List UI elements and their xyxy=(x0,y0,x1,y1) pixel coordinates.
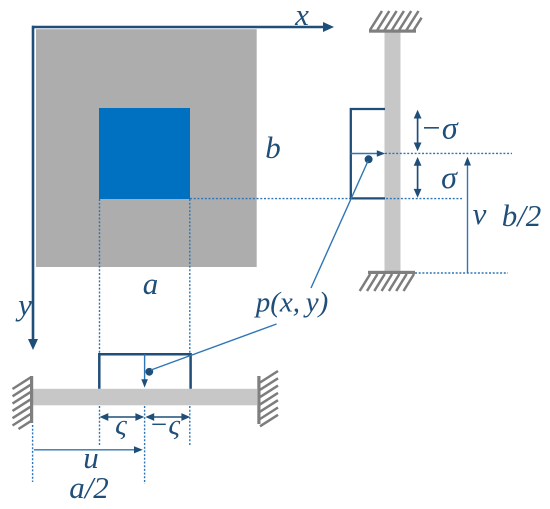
dotted horizontal at patch bottom xyxy=(190,198,462,200)
dotted vertical below left support xyxy=(32,425,34,482)
zeta double arrow xyxy=(100,413,145,421)
bottom beam right support base xyxy=(257,376,260,424)
svg-text:y: y xyxy=(15,287,32,322)
bottom load bracket xyxy=(99,354,190,389)
dotted vertical from patch right xyxy=(189,199,191,353)
v arrow xyxy=(464,157,471,273)
dotted horizontal at point level xyxy=(385,152,512,154)
u arrow xyxy=(34,446,143,453)
center line arrow down xyxy=(141,354,148,387)
svg-text:p(x, y): p(x, y) xyxy=(254,287,329,319)
svg-text:σ: σ xyxy=(441,159,458,195)
callout line to right point xyxy=(311,161,368,288)
dotted vertical below patch left xyxy=(99,406,101,445)
right beam bottom support base xyxy=(368,271,415,274)
dotted vertical below center xyxy=(144,406,146,484)
bottom beam left support hatch xyxy=(13,378,31,430)
bottom beam left support base xyxy=(30,376,33,423)
plate (gray square) xyxy=(36,29,257,267)
point on bottom beam xyxy=(145,368,153,376)
svg-text:ς: ς xyxy=(115,409,127,441)
dotted vertical from patch left xyxy=(99,199,101,353)
right beam bar xyxy=(385,32,401,272)
dotted horizontal at plate bottom level xyxy=(415,272,508,274)
svg-text:−σ: −σ xyxy=(420,110,459,146)
right load bracket xyxy=(351,109,385,198)
bottom beam bar xyxy=(33,389,257,406)
minus sigma double arrow xyxy=(414,110,422,152)
point on right beam xyxy=(365,155,373,163)
right beam top support base xyxy=(369,30,416,33)
svg-text:b/2: b/2 xyxy=(502,198,542,233)
callout line to bottom point xyxy=(151,324,277,370)
load patch (blue square) xyxy=(99,108,190,199)
dotted vertical below patch right xyxy=(189,406,191,445)
right beam bottom support hatch xyxy=(360,274,414,291)
svg-text:b: b xyxy=(265,130,281,165)
minus zeta double arrow xyxy=(145,413,190,421)
sigma double arrow xyxy=(414,157,422,198)
x axis xyxy=(32,22,334,32)
svg-text:x: x xyxy=(294,0,309,32)
bottom beam right support hatch xyxy=(260,371,278,426)
arrow point to bar xyxy=(351,150,386,157)
svg-text:v: v xyxy=(473,196,487,231)
svg-text:a/2: a/2 xyxy=(69,470,109,505)
right beam top support hatch xyxy=(370,11,422,30)
y axis xyxy=(28,26,38,350)
svg-text:−ς: −ς xyxy=(149,409,181,441)
svg-text:a: a xyxy=(143,266,159,301)
